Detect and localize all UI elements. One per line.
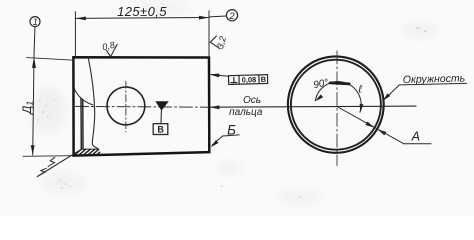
- hole circle: [107, 87, 145, 125]
- balloon 2: [226, 10, 237, 21]
- hatch top boundary: [81, 148, 98, 150]
- svg-text:пальца: пальца: [229, 107, 263, 118]
- section leader diagonal: [37, 149, 81, 176]
- specks / photo noise: [37, 3, 427, 198]
- D1 dimension line: [33, 58, 34, 155]
- outer circle: [288, 56, 384, 152]
- roughness 0,8 (top edge): [106, 44, 117, 56]
- D1 extension top: [27, 58, 75, 61]
- inner circle: [291, 60, 381, 150]
- bold dash on arc top: [330, 83, 349, 84]
- svg-text:Ось: Ось: [243, 95, 261, 106]
- balloon 2 leader: [209, 15, 226, 18]
- radius leader to A: [338, 107, 404, 144]
- svg-text:125±0,5: 125±0,5: [117, 4, 167, 19]
- arrow left of 125 dim: [76, 17, 86, 21]
- local section: chamfer curve: [74, 88, 93, 105]
- svg-text:В: В: [157, 124, 164, 134]
- ось пальца arrow + line: [209, 105, 219, 109]
- arrow right of 125 dim: [199, 16, 209, 20]
- 90 deg arc: [315, 82, 361, 113]
- svg-text:Д1: Д1: [22, 101, 35, 116]
- D1 extension bottom: [23, 155, 74, 158]
- dimension line 125: [76, 17, 209, 20]
- svg-text:0,08: 0,08: [242, 75, 257, 84]
- svg-text:2: 2: [228, 11, 235, 22]
- part outline (rectangle, left view): [73, 57, 209, 155]
- svg-text:ℓ: ℓ: [357, 84, 362, 96]
- balloon 1: [30, 17, 40, 27]
- svg-text:1: 1: [33, 17, 38, 27]
- zigzag marks: [48, 157, 55, 166]
- local section: bore wall lines: [80, 98, 82, 149]
- local section: break curve: [88, 57, 98, 149]
- tolerance leader: [212, 75, 229, 77]
- svg-text:В: В: [261, 75, 267, 84]
- datum triangle В: [155, 101, 169, 110]
- vertical centerline: [336, 51, 338, 166]
- extension line right (125 dim): [208, 11, 210, 57]
- axis centerline (left view): [76, 105, 209, 108]
- svg-text:А: А: [411, 130, 420, 144]
- balloon 1 leader: [33, 27, 36, 52]
- roughness 3,2 (right edge): [210, 36, 220, 49]
- arc arrow left: [314, 94, 323, 102]
- tolerance frame ⊥ 0,08 В: [228, 75, 267, 85]
- extension line left (125 dim): [74, 12, 76, 57]
- arc arrow right: [358, 104, 363, 113]
- hatch lines: [74, 149, 100, 155]
- hole vertical centerline: [125, 81, 127, 132]
